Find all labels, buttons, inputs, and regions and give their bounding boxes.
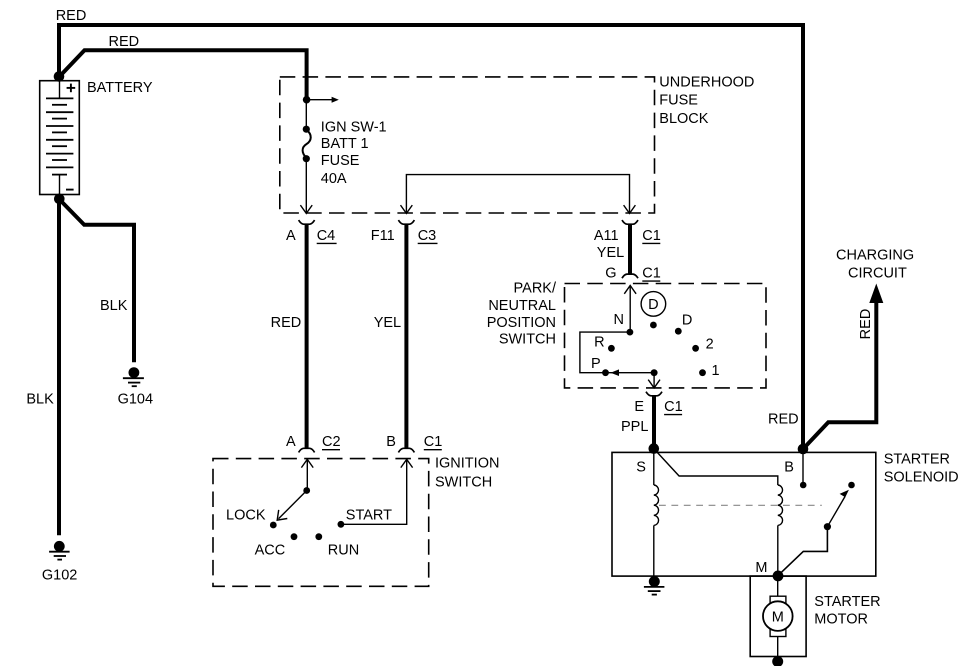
- svg-text:1: 1: [712, 363, 720, 379]
- wire motor to bottom node: [777, 637, 779, 662]
- node solenoid S terminal: [649, 443, 660, 454]
- svg-text:RUN: RUN: [328, 543, 359, 559]
- wire RED solenoid B to charging circuit: [803, 298, 876, 449]
- wire RED battery+ to fuse block: [59, 50, 307, 100]
- wire ignition A entry arrow to wiper: [306, 459, 308, 490]
- svg-text:YEL: YEL: [597, 245, 624, 261]
- ground G102: [42, 541, 77, 583]
- svg-text:RED: RED: [56, 8, 87, 24]
- svg-text:B: B: [386, 434, 396, 450]
- svg-text:LOCK: LOCK: [226, 508, 266, 524]
- wire BLK battery- to G104: [59, 199, 134, 362]
- svg-text:B: B: [784, 459, 794, 475]
- motor brush upper: [770, 596, 786, 603]
- connector C2 pin A: [299, 448, 315, 452]
- svg-text:BLK: BLK: [100, 298, 128, 314]
- svg-text:2: 2: [706, 336, 714, 352]
- starter motor box: [750, 576, 806, 656]
- svg-text:E: E: [634, 399, 644, 415]
- node ACC contact: [291, 533, 298, 540]
- ignition switch box: [213, 459, 429, 587]
- node 1 contact: [699, 369, 706, 376]
- svg-text:MOTOR: MOTOR: [814, 612, 868, 628]
- wire solenoid B to contact: [802, 449, 804, 485]
- node D contact: [675, 328, 682, 335]
- node R contact: [608, 345, 615, 352]
- wire RED fuse C4 to ignition switch A: [305, 225, 309, 449]
- svg-text:C4: C4: [317, 228, 336, 244]
- svg-text:UNDERHOOD: UNDERHOOD: [659, 75, 754, 91]
- node ignition wiper pivot: [303, 487, 310, 494]
- svg-text:G: G: [605, 266, 616, 282]
- svg-text:D: D: [648, 297, 658, 313]
- solenoid hold-in coil: [654, 449, 659, 576]
- node battery positive terminal: [54, 71, 65, 82]
- svg-text:C1: C1: [664, 399, 683, 415]
- connector C1 pin A11: [622, 220, 638, 224]
- svg-text:N: N: [614, 312, 624, 328]
- connector C1 pin B: [398, 448, 414, 452]
- wire solenoid plunger to M: [778, 527, 827, 576]
- battery BATTERY: [40, 80, 153, 195]
- svg-text:PARK/: PARK/: [514, 281, 557, 297]
- svg-text:IGNITION: IGNITION: [435, 456, 499, 472]
- motor M armature circle: [763, 601, 793, 631]
- svg-text:BLK: BLK: [26, 391, 54, 407]
- node center contact: [650, 322, 657, 329]
- node solenoid switch pivot: [824, 523, 831, 530]
- svg-text:SOLENOID: SOLENOID: [884, 470, 959, 486]
- svg-text:BLOCK: BLOCK: [659, 111, 708, 127]
- svg-text:C2: C2: [322, 434, 341, 450]
- svg-text:IGN SW-1: IGN SW-1: [321, 119, 387, 135]
- connector C3 pin F11: [398, 220, 414, 224]
- svg-text:YEL: YEL: [374, 315, 401, 331]
- wire park switch junction to E with exit arrow: [653, 373, 655, 388]
- svg-text:RED: RED: [271, 315, 302, 331]
- svg-text:P: P: [591, 356, 601, 372]
- svg-text:BATTERY: BATTERY: [87, 80, 153, 96]
- wire YEL fuse C1 to park/neutral G: [628, 225, 632, 274]
- wire M to motor: [777, 576, 779, 596]
- motor brush lower: [770, 629, 786, 636]
- svg-text:RED: RED: [858, 309, 874, 340]
- svg-text:STARTER: STARTER: [814, 594, 880, 610]
- svg-text:F11: F11: [371, 228, 395, 244]
- node battery negative terminal: [54, 194, 65, 205]
- fuse IGN SW-1 BATT 1 40A: [300, 100, 386, 214]
- svg-text:RED: RED: [109, 34, 140, 50]
- svg-text:CIRCUIT: CIRCUIT: [848, 266, 907, 282]
- connector C1 pin E: [646, 392, 662, 396]
- node solenoid M terminal: [773, 571, 784, 582]
- svg-text:M: M: [755, 560, 767, 576]
- svg-text:START: START: [346, 508, 392, 524]
- svg-text:C1: C1: [642, 228, 661, 244]
- svg-text:BATT 1: BATT 1: [321, 136, 369, 152]
- node solenoid B terminal: [798, 444, 809, 455]
- node park switch junction: [651, 369, 658, 376]
- node starter motor bottom terminal: [772, 656, 783, 666]
- solenoid plunger linkage dashed: [659, 504, 822, 506]
- svg-text:C3: C3: [418, 228, 437, 244]
- svg-text:A11: A11: [594, 228, 619, 244]
- wire park switch entry arrow to N: [629, 286, 631, 333]
- node solenoid B contact: [800, 482, 807, 489]
- arrowhead charging circuit: [870, 285, 883, 303]
- svg-text:FUSE: FUSE: [321, 153, 360, 169]
- wire ignition wiper arm to LOCK: [279, 491, 307, 519]
- svg-text:G102: G102: [42, 567, 77, 583]
- connector C1 pin G: [622, 274, 638, 278]
- node fuse block junction: [303, 96, 311, 104]
- svg-text:A: A: [286, 434, 296, 450]
- connector C4 pin A: [299, 220, 315, 224]
- svg-text:A: A: [286, 228, 296, 244]
- wire YEL fuse C3 to ignition switch B: [404, 225, 408, 449]
- svg-text:G104: G104: [118, 392, 153, 408]
- svg-text:RED: RED: [768, 412, 799, 428]
- wire START to ignition B exit arrow: [341, 459, 407, 524]
- wire RED battery+ to solenoid B (top run): [59, 25, 803, 449]
- underhood fuse block box: [280, 77, 655, 213]
- svg-text:C1: C1: [424, 434, 443, 450]
- node RUN contact: [315, 533, 322, 540]
- svg-text:SWITCH: SWITCH: [435, 475, 492, 491]
- svg-text:40A: 40A: [321, 171, 347, 187]
- node LOCK contact: [270, 522, 277, 529]
- svg-text:FUSE: FUSE: [659, 92, 698, 108]
- wire PPL park/neutral E to solenoid S: [652, 396, 656, 449]
- svg-text:D: D: [682, 313, 692, 329]
- svg-text:ACC: ACC: [255, 543, 286, 559]
- svg-text:R: R: [594, 335, 604, 351]
- svg-text:PPL: PPL: [621, 419, 648, 435]
- wire N to P to E inside park switch: [580, 332, 654, 373]
- svg-text:CHARGING: CHARGING: [836, 248, 914, 264]
- solenoid pull-in coil: [654, 449, 783, 576]
- ground solenoid coil: [644, 576, 665, 595]
- rotor indicator circled D: [641, 292, 666, 317]
- svg-text:C1: C1: [642, 266, 661, 282]
- node START contact: [338, 521, 345, 528]
- wire BLK battery- to G102: [57, 199, 61, 535]
- starter solenoid box: [612, 452, 876, 576]
- wire solenoid switch arm arrow: [827, 497, 845, 527]
- wire arrow right from junction: [307, 99, 333, 101]
- svg-text:SWITCH: SWITCH: [499, 332, 556, 348]
- node P contact: [602, 369, 609, 376]
- wire fuse block internal C3 to C1: [406, 175, 629, 213]
- svg-text:NEUTRAL: NEUTRAL: [488, 298, 556, 314]
- svg-text:POSITION: POSITION: [487, 315, 556, 331]
- svg-text:M: M: [772, 609, 784, 625]
- svg-text:S: S: [636, 459, 646, 475]
- park/neutral position switch box: [565, 284, 767, 388]
- svg-text:STARTER: STARTER: [884, 451, 950, 467]
- node solenoid switch contact: [848, 482, 855, 489]
- node 2 contact: [692, 345, 699, 352]
- ground G104: [118, 367, 153, 407]
- node N contact: [627, 329, 634, 336]
